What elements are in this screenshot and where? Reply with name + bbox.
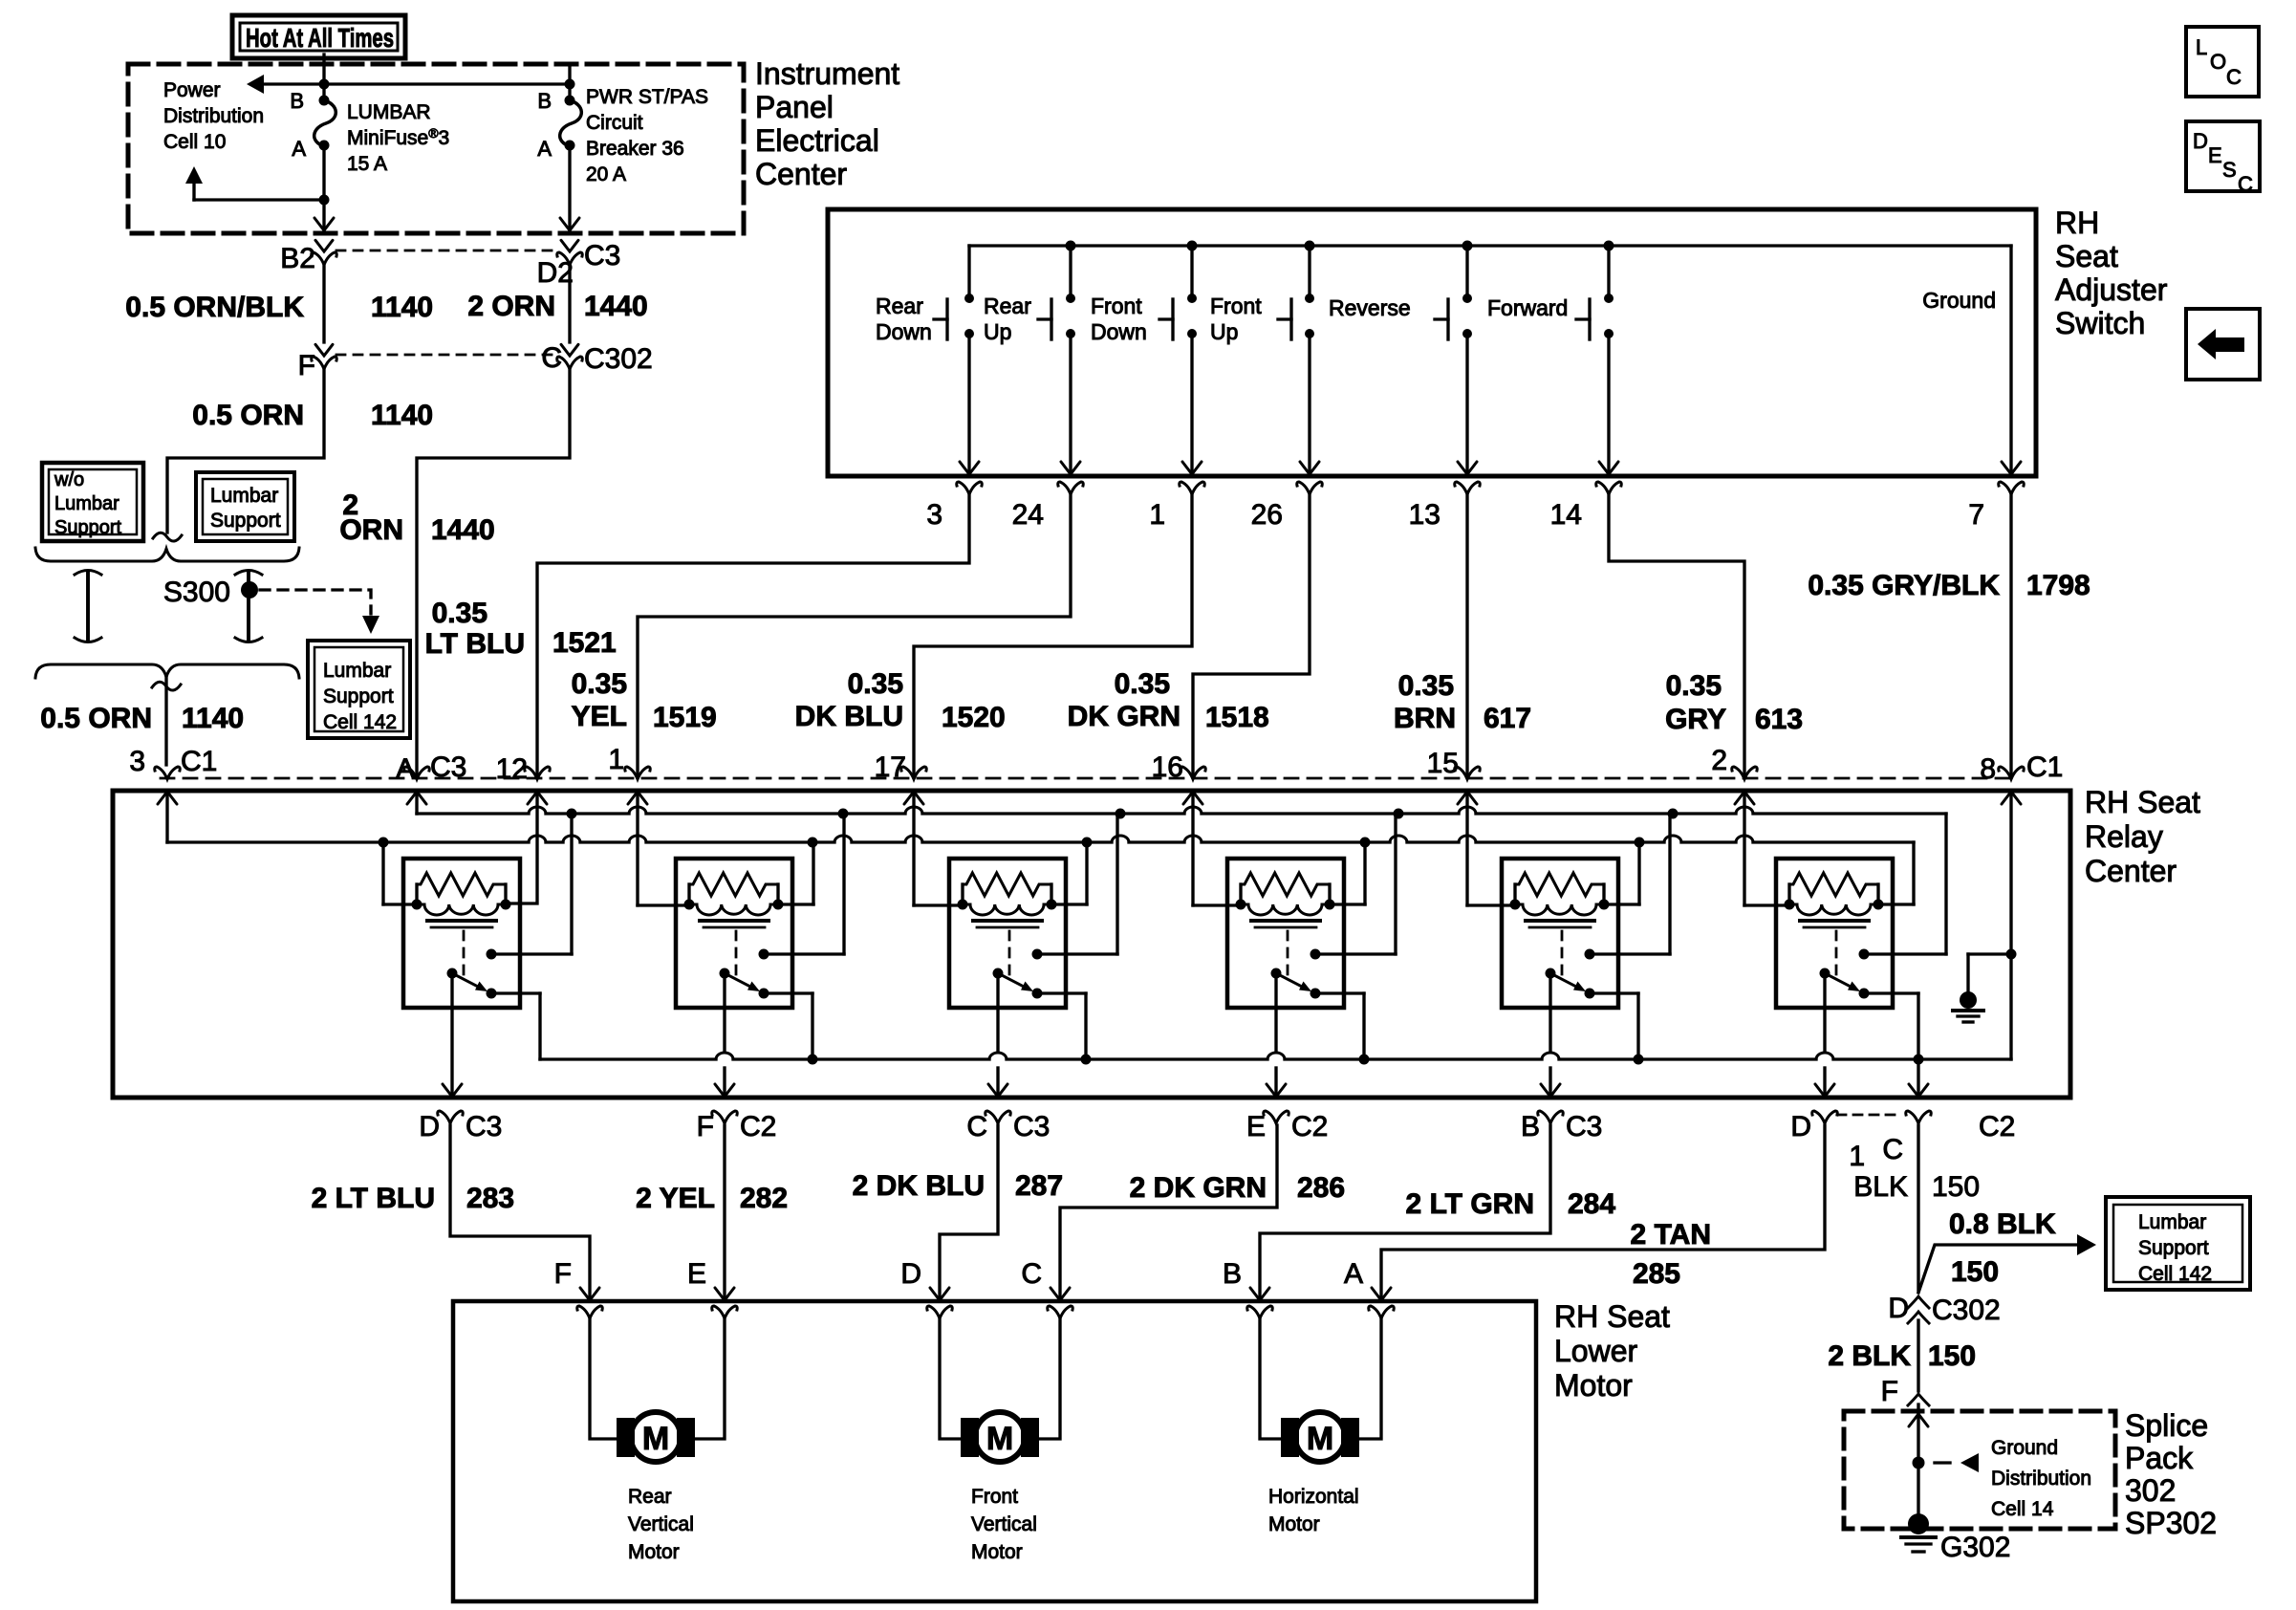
svg-text:Splice: Splice [2125,1408,2208,1443]
svg-text:Motor: Motor [628,1541,680,1563]
svg-text:B: B [290,89,304,113]
svg-text:1: 1 [1149,499,1165,531]
svg-text:C302: C302 [584,343,653,375]
svg-text:0.35 GRY/BLK: 0.35 GRY/BLK [1808,570,2000,601]
svg-text:E: E [687,1258,706,1290]
svg-text:16: 16 [1152,751,1183,783]
svg-text:Lumbar: Lumbar [2138,1211,2206,1233]
svg-text:w/o: w/o [54,469,84,490]
svg-text:Support: Support [323,685,394,707]
svg-text:15: 15 [1427,748,1459,779]
svg-text:LUMBAR: LUMBAR [347,101,431,123]
svg-text:13: 13 [1409,499,1440,531]
svg-text:150: 150 [1928,1340,1976,1372]
svg-text:1: 1 [608,744,624,775]
svg-text:F: F [697,1111,714,1142]
svg-text:150: 150 [1932,1171,1980,1203]
svg-text:A: A [292,137,306,161]
svg-text:D: D [900,1258,921,1290]
svg-text:G302: G302 [1940,1532,2010,1563]
svg-text:LT BLU: LT BLU [425,628,525,660]
svg-text:0.5 ORN/BLK: 0.5 ORN/BLK [125,292,304,323]
svg-text:Lumbar: Lumbar [210,485,278,507]
svg-text:Front: Front [971,1486,1018,1508]
svg-text:150: 150 [1951,1256,1999,1288]
svg-text:E: E [1246,1111,1266,1142]
svg-text:F: F [1881,1376,1898,1407]
svg-text:C: C [2238,172,2253,196]
svg-text:1798: 1798 [2026,570,2090,601]
svg-text:0.35: 0.35 [1398,670,1454,702]
svg-text:Pack: Pack [2125,1441,2194,1475]
svg-text:Lumbar: Lumbar [323,660,391,682]
svg-text:286: 286 [1297,1172,1345,1204]
svg-text:RH Seat: RH Seat [2085,785,2200,819]
svg-text:282: 282 [740,1183,788,1214]
svg-text:12: 12 [496,753,528,785]
svg-text:0.35: 0.35 [432,598,487,629]
svg-text:C1: C1 [2026,751,2063,783]
svg-text:613: 613 [1755,704,1803,735]
svg-text:Up: Up [1210,319,1238,344]
svg-text:0.35: 0.35 [572,668,627,700]
svg-text:B: B [537,89,552,113]
svg-text:A: A [1344,1258,1363,1290]
svg-text:2 DK GRN: 2 DK GRN [1130,1172,1267,1204]
svg-text:C2: C2 [1291,1111,1328,1142]
svg-text:E: E [2208,143,2222,167]
svg-text:Circuit: Circuit [586,112,643,134]
svg-text:C3: C3 [1013,1111,1050,1142]
svg-text:1519: 1519 [653,702,717,733]
svg-text:302: 302 [2125,1473,2176,1508]
svg-text:Up: Up [984,319,1011,344]
svg-text:2: 2 [1711,745,1727,776]
svg-text:D: D [2193,129,2208,153]
svg-text:D2: D2 [537,257,574,289]
svg-text:Center: Center [2085,854,2177,888]
svg-text:2 BLK: 2 BLK [1828,1340,1911,1372]
svg-text:D: D [1790,1111,1811,1142]
svg-text:Down: Down [1091,319,1147,344]
svg-text:YEL: YEL [572,701,627,732]
svg-text:S300: S300 [163,577,230,608]
svg-text:Motor: Motor [1268,1513,1320,1535]
svg-text:Cell 14: Cell 14 [1991,1498,2054,1520]
svg-text:C302: C302 [1932,1295,2001,1326]
svg-text:C: C [1882,1134,1903,1165]
svg-text:Distribution: Distribution [1991,1468,2091,1490]
svg-text:15 A: 15 A [347,153,387,175]
svg-text:A: A [396,753,415,785]
svg-text:C: C [541,342,562,374]
svg-text:283: 283 [466,1183,514,1214]
svg-text:1140: 1140 [371,400,433,431]
svg-text:0.35: 0.35 [1666,670,1722,702]
svg-text:Forward: Forward [1487,295,1568,320]
svg-text:285: 285 [1633,1258,1680,1290]
svg-text:2 DK BLU: 2 DK BLU [853,1170,985,1202]
svg-text:Center: Center [755,157,847,191]
svg-text:617: 617 [1484,703,1531,734]
svg-text:C: C [2226,65,2242,89]
svg-text:2 ORN: 2 ORN [467,291,555,322]
svg-text:0.5 ORN: 0.5 ORN [40,703,152,734]
svg-text:L: L [2196,35,2207,59]
svg-text:DK BLU: DK BLU [795,701,903,732]
svg-text:2 YEL: 2 YEL [636,1183,715,1214]
svg-text:Rear: Rear [876,294,923,318]
svg-text:M: M [1307,1421,1333,1457]
svg-text:Support: Support [54,517,121,538]
svg-text:Lower: Lower [1554,1334,1638,1368]
svg-text:Ground: Ground [1922,288,1996,313]
svg-text:Adjuster: Adjuster [2055,272,2168,307]
svg-text:Cell 10: Cell 10 [163,131,226,153]
svg-text:Reverse: Reverse [1329,295,1411,320]
svg-text:287: 287 [1015,1170,1063,1202]
svg-text:1440: 1440 [431,514,495,546]
svg-text:O: O [2210,50,2226,74]
svg-text:Vertical: Vertical [628,1513,694,1535]
svg-text:Distribution: Distribution [163,105,264,127]
svg-text:Horizontal: Horizontal [1268,1486,1359,1508]
svg-text:C3: C3 [1566,1111,1602,1142]
svg-text:Hot At All Times: Hot At All Times [246,23,394,53]
svg-text:3: 3 [129,746,145,777]
svg-text:24: 24 [1012,499,1044,531]
svg-text:Rear: Rear [628,1486,672,1508]
svg-text:Switch: Switch [2055,306,2145,340]
svg-text:F: F [554,1258,572,1290]
svg-text:3: 3 [926,499,942,531]
svg-text:Front: Front [1210,294,1262,318]
svg-text:RH: RH [2055,206,2099,240]
svg-text:GRY: GRY [1665,704,1726,735]
svg-text:Motor: Motor [1554,1368,1633,1403]
svg-text:C2: C2 [740,1111,776,1142]
svg-text:Motor: Motor [971,1541,1023,1563]
svg-text:0.35: 0.35 [1115,668,1170,700]
svg-text:Breaker 36: Breaker 36 [586,138,684,160]
svg-text:PWR ST/PAS: PWR ST/PAS [586,86,708,108]
svg-text:Panel: Panel [755,90,834,124]
svg-text:Instrument: Instrument [755,56,899,91]
svg-text:0.8 BLK: 0.8 BLK [1949,1208,2056,1240]
svg-text:S: S [2222,158,2237,182]
svg-text:26: 26 [1251,499,1283,531]
svg-text:ORN: ORN [339,514,403,546]
svg-text:Ground: Ground [1991,1437,2058,1459]
svg-text:8: 8 [1980,753,1996,785]
svg-text:1521: 1521 [552,627,617,659]
svg-text:7: 7 [1968,499,1984,531]
svg-text:C3: C3 [466,1111,502,1142]
svg-text:1518: 1518 [1205,702,1269,733]
svg-text:B2: B2 [280,243,315,274]
svg-text:C3: C3 [430,751,466,783]
svg-text:D: D [1888,1293,1909,1324]
svg-text:M: M [986,1421,1013,1457]
svg-text:Cell 142: Cell 142 [323,711,397,733]
svg-text:C: C [1021,1258,1042,1290]
svg-text:284: 284 [1568,1188,1615,1220]
svg-text:SP302: SP302 [2125,1506,2217,1540]
svg-text:Electrical: Electrical [755,123,879,158]
svg-text:B: B [1223,1258,1242,1290]
svg-text:Cell 142: Cell 142 [2138,1263,2212,1285]
svg-text:0.5 ORN: 0.5 ORN [192,400,304,431]
svg-text:Power: Power [163,79,221,101]
svg-text:Relay: Relay [2085,819,2163,854]
svg-text:1140: 1140 [182,703,244,734]
svg-text:1140: 1140 [371,292,433,323]
svg-text:Support: Support [210,510,281,532]
svg-text:2 LT BLU: 2 LT BLU [312,1183,435,1214]
svg-text:F: F [298,350,315,381]
svg-text:Vertical: Vertical [971,1513,1037,1535]
svg-text:D: D [419,1111,440,1142]
svg-text:Front: Front [1091,294,1142,318]
svg-text:17: 17 [875,751,906,783]
svg-text:A: A [537,137,552,161]
svg-text:B: B [1521,1111,1540,1142]
svg-text:BRN: BRN [1394,703,1456,734]
svg-text:DK GRN: DK GRN [1068,701,1180,732]
svg-text:1520: 1520 [942,702,1006,733]
svg-text:2 TAN: 2 TAN [1631,1219,1711,1251]
svg-text:Down: Down [876,319,932,344]
svg-text:1440: 1440 [584,291,648,322]
svg-text:BLK: BLK [1853,1171,1908,1203]
svg-text:C: C [966,1111,987,1142]
svg-text:0.35: 0.35 [848,668,903,700]
svg-text:Support: Support [2138,1237,2209,1259]
svg-text:C3: C3 [584,240,620,272]
svg-text:C1: C1 [181,746,217,777]
svg-text:14: 14 [1550,499,1582,531]
svg-text:20 A: 20 A [586,163,626,185]
svg-text:M: M [642,1421,669,1457]
svg-text:C2: C2 [1979,1111,2015,1142]
svg-text:RH Seat: RH Seat [1554,1299,1670,1334]
svg-text:1: 1 [1849,1141,1865,1172]
svg-text:Rear: Rear [984,294,1031,318]
svg-text:Seat: Seat [2055,239,2118,273]
svg-text:Lumbar: Lumbar [54,493,119,514]
svg-text:2 LT GRN: 2 LT GRN [1406,1188,1534,1220]
